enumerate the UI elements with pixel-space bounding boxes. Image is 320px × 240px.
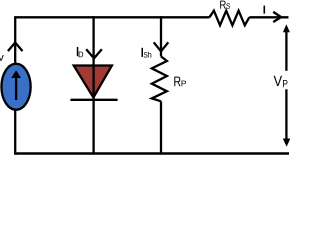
diode D1 cathode bar — [70, 99, 117, 101]
diode D1 (triangle body) — [74, 66, 112, 98]
current source inner arrow shaft — [15, 77, 17, 101]
wire: bottom bus — [14, 152, 289, 155]
wire: left branch upper segment — [14, 16, 16, 64]
wire: top bus from left corner to RS — [15, 16, 209, 18]
label RP — [174, 77, 180, 87]
voltage arrow VP upper segment (points up) — [285, 30, 287, 71]
label VP — [274, 76, 283, 86]
label Ipv (subscript v fragment at canvas edge) — [0, 55, 4, 61]
resistor RS (series) zigzag — [209, 11, 249, 26]
label ISh — [142, 48, 143, 57]
arrow: ID current direction (down open arrowhead) — [86, 49, 102, 58]
wire: shunt branch upper segment — [160, 16, 162, 56]
current source Ipv (ellipse) — [1, 64, 30, 110]
voltage arrow VP lower segment (points down) — [285, 89, 287, 141]
current source inner arrowhead — [11, 70, 21, 78]
wire: top bus from RS to output terminal — [249, 16, 288, 18]
arrow: ISh current direction (down open arrowhead) — [154, 42, 169, 51]
label RS — [220, 1, 226, 9]
arrow: output current I (right-pointing open arrowhead) — [273, 12, 281, 22]
resistor RP (shunt) zigzag — [152, 56, 167, 101]
voltage arrow VP upper arrowhead — [283, 24, 290, 32]
wire: diode branch (passes through triangle) — [92, 16, 94, 154]
voltage arrow VP lower arrowhead — [283, 139, 291, 147]
wire: shunt branch lower segment — [160, 101, 162, 154]
wire: left branch lower segment — [14, 110, 16, 154]
label ID — [77, 47, 78, 56]
label I (output current) — [264, 6, 266, 14]
arrow: Ipv current direction (up open arrowhead) — [8, 43, 23, 52]
